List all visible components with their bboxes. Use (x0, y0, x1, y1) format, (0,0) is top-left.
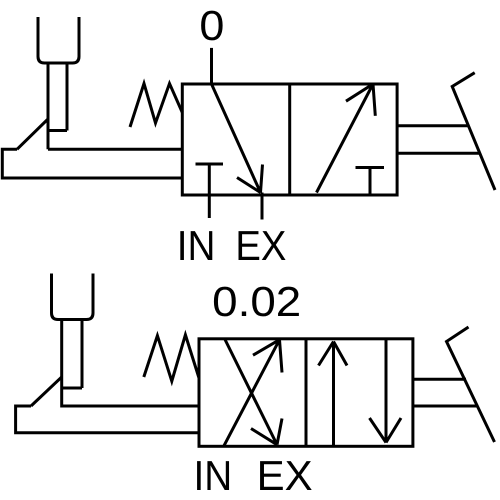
plunger stem of V2 actuator (62, 320, 82, 408)
V2 crossed flow arrow down (225, 340, 282, 445)
roller lever of V1 (452, 73, 495, 190)
valve body V2 (199, 339, 413, 447)
V1 right chamber flow arrow (317, 84, 376, 193)
plunger stem of V1 actuator (48, 63, 67, 149)
plunger head (roller holder cup) of V1 actuator (38, 17, 79, 63)
svg-text:0: 0 (199, 2, 224, 49)
actuator arm diagonal (17, 119, 48, 149)
svg-text:0.02: 0.02 (212, 278, 301, 325)
actuator lever bar (2, 149, 182, 178)
V1 right side connection stubs (397, 126, 479, 153)
return spring of V1 (130, 84, 182, 128)
valve body V1 (182, 84, 397, 195)
svg-text:EX: EX (257, 452, 313, 499)
svg-text:IN: IN (177, 222, 216, 269)
valve V1 center divider (288, 84, 291, 195)
svg-text:IN: IN (194, 452, 233, 499)
blocked port T in V1 right chamber (356, 168, 385, 196)
blocked IN port T of V1 (196, 164, 224, 218)
actuator lever bar of V2 (16, 406, 199, 433)
V2 crossed flow arrow up (224, 340, 282, 446)
V1 left chamber flow arrow (to EX) (212, 84, 263, 193)
label 0 leader line (210, 48, 213, 84)
EX port stub of V1 (261, 193, 264, 220)
actuator arm diagonal of V2 (31, 377, 62, 406)
valve V2 center divider (305, 339, 308, 447)
V2 right chamber down arrow (370, 339, 402, 443)
svg-text:EX: EX (235, 222, 286, 269)
return spring of V2 (144, 335, 199, 381)
roller lever of V2 (447, 327, 495, 442)
V2 right chamber up arrow (319, 342, 348, 447)
V2 right side connection stubs (413, 379, 478, 406)
plunger head (roller holder cup) of V2 actuator (52, 274, 94, 320)
